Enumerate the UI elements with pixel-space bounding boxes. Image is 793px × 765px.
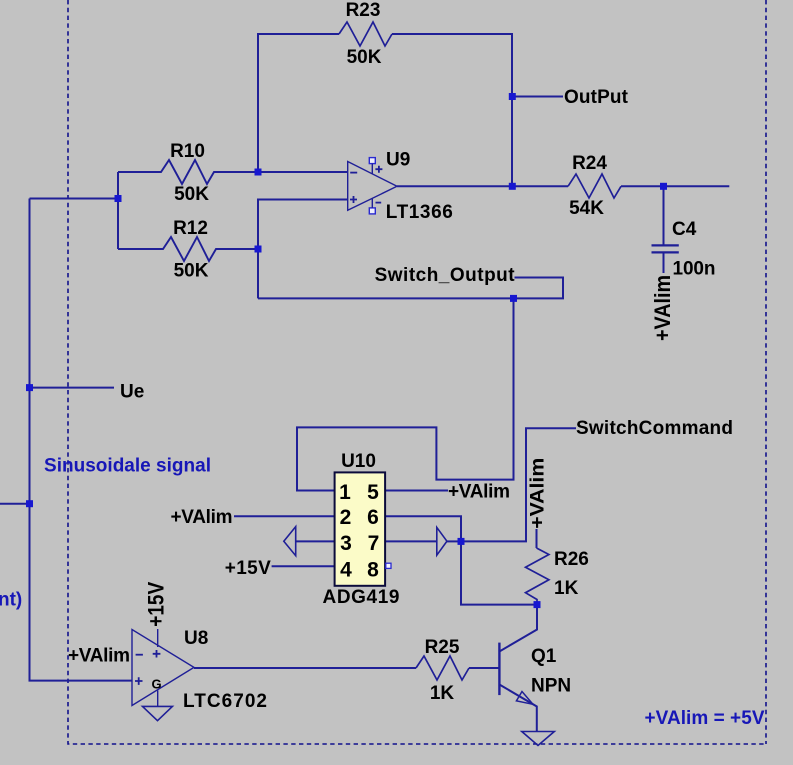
svg-text:OutPut: OutPut (564, 87, 629, 108)
svg-text:5: 5 (367, 481, 379, 504)
U9 V+ pin (369, 158, 375, 164)
wire node down to R26 bottom (461, 541, 537, 604)
ground Q1 (522, 732, 555, 746)
svg-text:LT1366: LT1366 (386, 202, 453, 223)
wire R25 to Q1 base (469, 667, 499, 669)
wire U10 pin4 +15V stub (272, 565, 335, 567)
svg-text:R23: R23 (346, 0, 381, 21)
svg-text:R26: R26 (554, 549, 589, 570)
wire U10 pin7 to arrow (385, 540, 437, 542)
svg-text:ADG419: ADG419 (323, 587, 400, 608)
svg-text:1K: 1K (430, 683, 455, 704)
svg-text:R12: R12 (173, 218, 208, 239)
U8 plus input mark (135, 677, 143, 685)
svg-text:Sinusoidale signal: Sinusoidale signal (44, 456, 211, 477)
wire +VAlim to R26 top (536, 529, 538, 548)
wire U10 pin2 stub (234, 515, 335, 517)
svg-text:U10: U10 (341, 451, 376, 472)
wire Switch_Output net (258, 278, 563, 299)
U9 minus input mark (350, 172, 357, 174)
svg-text:50K: 50K (174, 261, 209, 282)
svg-text:6: 6 (367, 506, 379, 529)
wire arrow tip to node (447, 540, 461, 542)
svg-text:4: 4 (340, 559, 352, 582)
resistor R12 (118, 237, 258, 261)
capacitor C4 (663, 186, 665, 245)
transistor Q1 (498, 643, 500, 696)
arrow pin3 left (284, 527, 296, 556)
Q1 emitter arrow (516, 692, 533, 705)
resistor R25 (416, 656, 469, 680)
ground U8 (143, 706, 173, 720)
wire Switch_Output down to pin1 loop (297, 298, 514, 490)
label pins U10 (339, 481, 379, 582)
op-amp U8 (132, 630, 194, 706)
U8 V+ pin stub (157, 629, 159, 647)
svg-text:C4: C4 (672, 219, 697, 240)
U8 gnd pin stub (157, 690, 159, 706)
svg-text:8: 8 (367, 559, 379, 582)
arrow pin7 right (437, 527, 447, 555)
svg-text:54K: 54K (569, 198, 604, 219)
wire U10 pin5 stub (385, 490, 448, 492)
svg-text:100n: 100n (673, 259, 716, 280)
resistor R23 (339, 22, 392, 46)
svg-text:SwitchCommand: SwitchCommand (576, 418, 733, 439)
resistor R24 (568, 174, 621, 198)
IC U10 body (335, 472, 386, 585)
svg-text:Ue: Ue (120, 382, 144, 403)
svg-text:U9: U9 (386, 150, 410, 171)
svg-text:R24: R24 (572, 153, 607, 174)
svg-text:Switch_Output: Switch_Output (375, 265, 516, 286)
svg-text:R10: R10 (170, 141, 205, 162)
resistor R10 (118, 160, 258, 184)
wire left node to R10/R12 branch (30, 172, 119, 249)
svg-text:2: 2 (340, 506, 352, 529)
svg-text:50K: 50K (174, 184, 209, 205)
svg-text:Q1: Q1 (531, 646, 557, 667)
svg-text:nt): nt) (0, 590, 22, 611)
wire R23 left vertical (258, 34, 339, 172)
svg-text:U8: U8 (184, 628, 208, 649)
svg-text:3: 3 (340, 532, 352, 555)
U10 pin8 square (386, 563, 391, 568)
svg-text:G: G (151, 677, 161, 692)
svg-text:+VAlim: +VAlim (448, 482, 510, 503)
wire R24 to end (621, 185, 729, 187)
wire Ue stub (30, 387, 115, 389)
svg-text:50K: 50K (347, 47, 382, 68)
junction nodes (26, 93, 667, 608)
svg-text:7: 7 (368, 532, 380, 555)
U9 plus input mark (350, 196, 357, 203)
wire left edge stub (0, 503, 30, 505)
wire R23 to right vertical (392, 34, 512, 186)
svg-text:1: 1 (339, 481, 351, 504)
wire U10 pin3 to arrow (296, 540, 335, 542)
wire U9 minus input (258, 171, 348, 173)
svg-text:+VAlim: +VAlim (68, 646, 130, 667)
svg-text:+VAlim: +VAlim (171, 507, 233, 528)
wire node to SwitchCommand (461, 428, 576, 541)
svg-text:+VAlim: +VAlim (650, 275, 675, 341)
wire U9 plus input and vertical to Switch_Output (258, 200, 348, 299)
svg-text:LTC6702: LTC6702 (183, 691, 267, 712)
U8 minus input mark (136, 654, 143, 656)
wire OutPut stub (512, 96, 563, 98)
svg-text:1K: 1K (554, 578, 579, 599)
wire left vertical to U8 (30, 199, 133, 681)
wire U10 pin6 to node (385, 516, 461, 541)
svg-text:+VAlim: +VAlim (528, 458, 549, 529)
wire U8 output to R25 (194, 667, 416, 669)
op-amp U9 (348, 162, 397, 211)
U9 V- pin (369, 208, 375, 214)
svg-text:+VAlim = +5V: +VAlim = +5V (645, 708, 765, 729)
svg-text:+15V: +15V (144, 582, 169, 627)
svg-text:R25: R25 (425, 637, 460, 658)
svg-text:+15V: +15V (225, 558, 271, 579)
wire U9 output to R24 (397, 185, 568, 187)
resistor R26 (526, 548, 549, 605)
svg-text:NPN: NPN (531, 676, 571, 697)
